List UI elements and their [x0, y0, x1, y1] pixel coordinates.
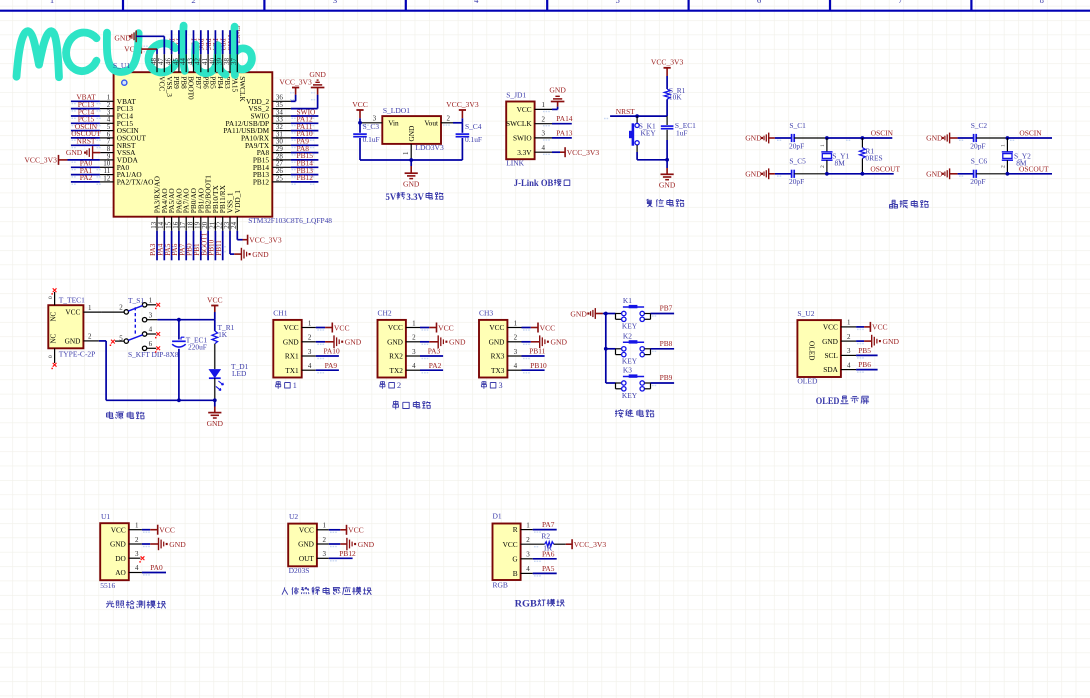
pin 20 net BOOT1 [200, 217, 209, 261]
svg-text:3: 3 [149, 311, 153, 319]
pushbutton K2 KEY [606, 332, 651, 366]
svg-text:8M: 8M [835, 158, 846, 167]
svg-text:VCC_3V3: VCC_3V3 [651, 58, 684, 67]
svg-text:1: 1 [1001, 144, 1007, 147]
section title PIR sensor [282, 587, 372, 595]
svg-text:4: 4 [542, 144, 546, 152]
pin 37 wire top [230, 30, 238, 72]
svg-text:NC: NC [50, 311, 58, 321]
resistor R1 10K [664, 86, 685, 116]
svg-text:6: 6 [149, 340, 153, 348]
svg-text:8: 8 [1040, 0, 1044, 5]
svg-text:20pF: 20pF [789, 177, 804, 186]
wire OSCOUT net [825, 165, 900, 176]
pin 4 AO net PA0 [129, 563, 166, 576]
svg-text:GND: GND [298, 540, 314, 549]
svg-text:PA2/TX/AO: PA2/TX/AO [117, 178, 154, 187]
svg-text:25: 25 [276, 174, 284, 182]
svg-text:SCL: SCL [825, 351, 839, 360]
svg-text:2: 2 [847, 333, 851, 341]
pin 4 B net PA5 [521, 564, 557, 577]
pushbutton K1 KEY [606, 296, 651, 330]
svg-text:K1: K1 [623, 296, 632, 305]
svg-text:VCC: VCC [489, 323, 504, 332]
pin 22 net PB11 [215, 217, 224, 261]
pin 32 net PA11 [272, 122, 318, 134]
svg-text:S_U1: S_U1 [113, 61, 130, 70]
svg-text:S_KFT DIP-8X8: S_KFT DIP-8X8 [128, 350, 179, 359]
svg-text:24: 24 [230, 221, 238, 229]
pin 3 RX1 net PA10 [302, 347, 340, 360]
pin 36 VDD_2 to VCC_3V3 [272, 88, 295, 102]
designator S_U1 [113, 61, 130, 70]
pin 29 net PA8 [272, 144, 318, 156]
pin 4 TX3 net PB10 [507, 361, 547, 374]
svg-text:SWCLK: SWCLK [506, 119, 532, 128]
svg-text:3: 3 [514, 348, 518, 356]
svg-text:G: G [512, 554, 518, 563]
svg-text:2: 2 [88, 333, 92, 341]
pin 4 3.3V to VCC_3V3 [535, 144, 600, 157]
power port VCC_3V3 reset [651, 58, 684, 89]
svg-text:2: 2 [119, 304, 123, 312]
pin 1 VCC U2 [317, 522, 364, 535]
pin 34 net SWIO [272, 107, 318, 119]
svg-text:SWIO: SWIO [513, 134, 532, 143]
pin 3 SWIO net PA13 [535, 129, 573, 141]
svg-text:VCC: VCC [517, 105, 532, 114]
voltage regulator LDO1 body [382, 106, 444, 152]
svg-text:GND: GND [549, 86, 566, 95]
power port VCC power circuit [207, 295, 223, 319]
pin 1 VCC U1 [129, 522, 175, 535]
capacitor C3 0.1uF [353, 121, 379, 160]
svg-text:4: 4 [135, 564, 139, 572]
svg-text:2: 2 [308, 334, 312, 342]
svg-text:GND: GND [169, 540, 186, 549]
svg-text:S_C1: S_C1 [789, 121, 806, 130]
compile dashes below U1 [159, 246, 226, 252]
svg-text:3: 3 [333, 0, 337, 5]
svg-text:VCC_3V3: VCC_3V3 [249, 236, 282, 245]
crystal Y1 8M [820, 138, 849, 174]
svg-text:PA6: PA6 [542, 549, 555, 558]
pin 14 net PA4 [157, 217, 166, 261]
no connect X pole stub [110, 340, 125, 346]
wire OSCOUT net right [1006, 165, 1053, 176]
svg-text:KEY: KEY [622, 321, 638, 330]
svg-text:PA2: PA2 [429, 361, 442, 370]
pin 5 net OSCIN [71, 122, 114, 134]
pin 2 GND CH1 [302, 334, 362, 349]
svg-text:35: 35 [276, 101, 284, 109]
svg-text:GND: GND [110, 540, 126, 549]
svg-text:GND: GND [822, 337, 838, 346]
svg-text:0.1uF: 0.1uF [363, 135, 380, 144]
svg-text:KEY: KEY [641, 128, 657, 137]
svg-text:KEY: KEY [622, 391, 638, 400]
pin 48 VCC [141, 49, 158, 72]
svg-text:CH3: CH3 [479, 309, 493, 318]
svg-text:3: 3 [412, 348, 416, 356]
svg-text:Vin: Vin [388, 119, 399, 128]
sensor U1 body [100, 512, 129, 590]
svg-text:PA5: PA5 [542, 564, 555, 573]
svg-text:GND: GND [883, 337, 900, 346]
pin 6 net OSCOUT [71, 129, 114, 141]
svg-text:GND: GND [926, 169, 943, 178]
svg-text:S_JD1: S_JD1 [506, 91, 526, 100]
connector CH3 body [479, 309, 507, 378]
svg-text:1: 1 [293, 381, 297, 390]
capacitor EC1 1uF [661, 116, 696, 160]
ground GND reset [659, 160, 676, 190]
svg-text:5: 5 [615, 0, 619, 5]
net label NRST wire [604, 107, 667, 119]
label serial 3 [481, 381, 502, 390]
pin 17 net PA7 [178, 217, 187, 261]
svg-text:GND: GND [358, 540, 375, 549]
svg-text:PA9: PA9 [325, 361, 338, 370]
svg-text:GND: GND [387, 337, 403, 346]
svg-text:2: 2 [542, 115, 546, 123]
svg-text:LINK: LINK [506, 158, 524, 167]
svg-text:GND: GND [407, 126, 416, 142]
pin 1 VCC wire to switch [83, 304, 124, 312]
svg-text:3: 3 [308, 348, 312, 356]
svg-text:1K: 1K [218, 330, 228, 339]
connector JD1 J-Link body [506, 91, 535, 168]
LED D1 power indicator [209, 362, 249, 400]
svg-text:RX2: RX2 [389, 352, 403, 361]
svg-text:D1: D1 [493, 511, 502, 520]
svg-text:GND: GND [345, 338, 362, 347]
svg-text:1: 1 [526, 521, 530, 529]
svg-text:VCC: VCC [540, 323, 556, 332]
svg-text:1uF: 1uF [676, 128, 688, 137]
pin 1 VCC CH2 [406, 319, 454, 332]
svg-text:RX1: RX1 [285, 352, 299, 361]
pin 24 VDD_1 to VCC_3V3 [230, 217, 282, 245]
connector TEC1 TYPE-C body [48, 296, 95, 359]
connector CH1 body [273, 309, 301, 378]
svg-text:VCC: VCC [299, 525, 314, 534]
net labels top of U1 [167, 25, 241, 51]
svg-text:1: 1 [402, 151, 410, 155]
ground GND above J-Link pin1 [549, 86, 566, 102]
svg-text:VCC_3V3: VCC_3V3 [24, 156, 57, 165]
svg-text:K3: K3 [623, 366, 632, 375]
svg-text:PA2: PA2 [80, 173, 93, 182]
pin 38 wire top [223, 30, 231, 72]
ground GND crystal1 row2 [745, 168, 775, 179]
svg-text:1: 1 [135, 522, 139, 530]
svg-text:1: 1 [514, 319, 518, 327]
svg-text:37: 37 [230, 58, 238, 66]
wire bottom rail LDO [360, 158, 462, 162]
pin 12 net PA2 [71, 173, 114, 185]
pin 16 net PA6 [171, 217, 180, 261]
svg-text:4: 4 [308, 362, 312, 370]
svg-text:4: 4 [474, 0, 479, 5]
svg-text:VCC: VCC [334, 323, 350, 332]
svg-text:1: 1 [88, 304, 92, 312]
svg-text:GND: GND [659, 181, 676, 190]
svg-text:CH1: CH1 [273, 309, 287, 318]
svg-text:GND: GND [551, 338, 568, 347]
pin 1 VCC CH1 [302, 319, 350, 332]
power port VCC_3V3 above C4 [446, 100, 479, 123]
svg-text:TX1: TX1 [285, 366, 299, 375]
capacitor C1 20pF [775, 121, 827, 151]
svg-text:S_U2: S_U2 [797, 309, 814, 318]
svg-text:3.3V: 3.3V [517, 148, 532, 157]
ground GND crystal1 row1 [745, 133, 775, 144]
svg-text:GND: GND [207, 419, 224, 428]
svg-text:K2: K2 [623, 332, 632, 341]
capacitor C6 20pF [958, 156, 1008, 186]
svg-text:PB8: PB8 [660, 339, 673, 348]
svg-text:5V: 5V [386, 192, 397, 203]
svg-text:0: 0 [48, 355, 54, 358]
svg-text:PB6: PB6 [858, 360, 871, 369]
svg-text:3: 3 [135, 550, 139, 558]
svg-text:GND: GND [252, 250, 269, 259]
svg-text:OSCOUT: OSCOUT [1019, 165, 1049, 174]
pin 9 VDDA VCC_3V3 [24, 152, 113, 165]
svg-text:S_C3: S_C3 [363, 122, 380, 131]
capacitor C2 20pF [958, 121, 1008, 151]
pin 3 RX3 net PB11 [507, 347, 545, 360]
svg-text:GND: GND [114, 34, 131, 43]
svg-text:1: 1 [412, 319, 416, 327]
pin 15 net PA5 [164, 217, 173, 261]
pin 4 SDA net PB6 [841, 360, 878, 373]
svg-text:S_LDO1: S_LDO1 [383, 106, 410, 115]
pushbutton K1 KEY reset [631, 116, 656, 160]
svg-text:220uF: 220uF [188, 342, 207, 351]
svg-text:PB9: PB9 [660, 373, 673, 382]
wire net PB8 [651, 339, 675, 352]
svg-text:3: 3 [323, 550, 327, 558]
svg-text:GND: GND [570, 309, 587, 318]
pin 3 Vin wire [360, 115, 382, 126]
svg-text:10K: 10K [669, 93, 682, 102]
power port VCC top of U1 [124, 45, 148, 54]
svg-text:J-Link OB: J-Link OB [514, 178, 554, 189]
pin 43 wire top [186, 30, 194, 72]
svg-text:PA13: PA13 [556, 129, 572, 138]
pin 46 wire top [165, 30, 173, 72]
svg-text:1: 1 [308, 319, 312, 327]
pin 4 TX1 net PA9 [302, 361, 339, 374]
svg-text:PB10: PB10 [530, 361, 547, 370]
section title light sensor [106, 600, 166, 608]
svg-text:PA3: PA3 [428, 347, 441, 356]
svg-text:OSCIN: OSCIN [1019, 129, 1042, 138]
svg-text:1: 1 [149, 296, 153, 304]
svg-text:SDA: SDA [823, 365, 838, 374]
svg-text:VCC_3V3: VCC_3V3 [574, 540, 607, 549]
capacitor EC1 220uF polarized [172, 320, 207, 401]
svg-text:VCC: VCC [348, 526, 364, 535]
pin 3 G net PA6 [521, 549, 557, 562]
svg-text:1: 1 [847, 319, 851, 327]
svg-text:OLED: OLED [807, 341, 816, 360]
pin 45 wire top [172, 30, 180, 72]
svg-text:OUT: OUT [299, 554, 315, 563]
svg-text:20pF: 20pF [970, 141, 985, 150]
pin stub bottom TEC1 no connect [48, 348, 57, 369]
pin 30 net PA9 [272, 137, 318, 149]
pin 26 net PB13 [272, 166, 318, 178]
svg-text:GND: GND [283, 337, 299, 346]
pin 11 net PA1 [71, 166, 114, 178]
svg-text:DO: DO [115, 554, 126, 563]
svg-text:GND: GND [65, 336, 81, 345]
resistor R1 0RES crystal [860, 138, 883, 174]
wire switch to VCC rail [157, 318, 214, 322]
pin 1 wire to ground [535, 101, 558, 112]
svg-text:2: 2 [191, 0, 195, 5]
svg-text:PA14: PA14 [556, 114, 572, 123]
pin 8 VSSA ground [66, 145, 114, 159]
pin 4 TX2 net PA2 [406, 361, 443, 374]
pin 44 wire top [179, 30, 187, 72]
section title buttons [615, 409, 654, 417]
resistor R1 1K power [212, 320, 235, 369]
svg-text:CH2: CH2 [378, 309, 392, 318]
wire net PB9 [651, 373, 675, 386]
svg-text:3: 3 [499, 381, 503, 390]
svg-text:VCC: VCC [159, 526, 175, 535]
section title OLED display [816, 396, 869, 407]
section title serial [393, 401, 430, 410]
svg-text:OSCIN: OSCIN [871, 129, 894, 138]
svg-text:4: 4 [526, 565, 530, 573]
svg-text:1: 1 [50, 0, 54, 5]
svg-text:LDO3V3: LDO3V3 [415, 143, 444, 152]
crystal Y2 8M [1001, 138, 1032, 174]
svg-text:VDD_1: VDD_1 [233, 190, 242, 213]
wire reset bottom [637, 158, 669, 162]
pin 2 net PC13 [71, 100, 114, 112]
pin 25 net PB12 [272, 173, 318, 185]
label serial 2 [380, 381, 401, 390]
section title J-Link OB [514, 178, 570, 189]
pin 31 net PA10 [272, 129, 318, 141]
svg-text:1: 1 [820, 144, 826, 147]
label serial 1 [276, 381, 297, 390]
svg-text:GND: GND [926, 134, 943, 143]
svg-text:2: 2 [526, 536, 530, 544]
svg-text:VCC: VCC [111, 525, 126, 534]
svg-text:3: 3 [847, 347, 851, 355]
svg-text:GND: GND [66, 148, 83, 157]
svg-text:0.1uF: 0.1uF [465, 135, 482, 144]
svg-text:4: 4 [412, 362, 416, 370]
svg-text:T_S1: T_S1 [128, 296, 144, 305]
ground GND crystal2 row1 [926, 133, 958, 144]
pin 1 VCC OLED [841, 319, 888, 332]
svg-text:5: 5 [119, 334, 123, 342]
wire power bottom rail [106, 398, 217, 402]
svg-text:4: 4 [514, 362, 518, 370]
svg-text:PB11: PB11 [529, 347, 545, 356]
section title RGB module [515, 599, 565, 610]
svg-text:SWCLK: SWCLK [238, 76, 247, 102]
pin 1 R net PA7 [521, 520, 557, 533]
svg-text:9: 9 [107, 152, 111, 160]
ground GND power [207, 400, 224, 428]
svg-text:2: 2 [820, 165, 826, 168]
svg-text:PB7: PB7 [660, 304, 673, 313]
logo MCUclub [17, 26, 252, 77]
svg-text:6: 6 [757, 0, 762, 5]
part number STM32F103C8T6_LQFP48 [248, 216, 332, 225]
pin 41 wire top [201, 30, 209, 72]
capacitor C4 0.1uF [456, 122, 482, 160]
svg-text:R2: R2 [541, 532, 550, 541]
svg-text:D203S: D203S [289, 566, 310, 575]
pin 28 net PB15 [272, 151, 318, 163]
svg-text:VCC: VCC [388, 323, 403, 332]
svg-text:RX3: RX3 [491, 352, 505, 361]
svg-text:VCC_3V3: VCC_3V3 [567, 148, 600, 157]
switch S1 KFT DIP-8X8 [119, 296, 179, 359]
svg-text:12: 12 [103, 174, 111, 182]
MCU U1 body STM32F103C8T6 [114, 72, 273, 217]
svg-text:VCC_3V3: VCC_3V3 [279, 77, 312, 86]
wire GND top left of U1 [114, 30, 164, 42]
svg-text:2: 2 [135, 536, 139, 544]
pin 13 net PA3 [149, 217, 158, 261]
ground GND below LDO [403, 160, 420, 188]
pin 3 RX2 net PA3 [406, 347, 443, 360]
svg-text:LED: LED [232, 369, 247, 378]
pin 40 wire top [208, 30, 216, 72]
svg-text:S_C2: S_C2 [971, 121, 988, 130]
pin 1 GND lead [402, 144, 411, 160]
svg-text:GND: GND [403, 179, 420, 188]
svg-text:VCC: VCC [438, 323, 454, 332]
section title crystal [890, 200, 929, 208]
pin 21 net PB10 [208, 217, 217, 261]
power port VCC above C3 [352, 100, 368, 123]
wire OSCIN net [825, 129, 894, 141]
svg-text:PB12: PB12 [339, 549, 356, 558]
pin 2 GND CH3 [507, 334, 567, 349]
pin 1 VCC CH3 [507, 319, 555, 332]
pin 3 OUT net PB12 [317, 549, 356, 562]
pin 4 net PC15 [71, 115, 114, 127]
svg-text:RGB: RGB [515, 599, 538, 610]
svg-text:STM32F103C8T6_LQFP48: STM32F103C8T6_LQFP48 [248, 216, 332, 225]
pin 39 wire top [216, 30, 224, 72]
wire net PB7 [651, 304, 675, 317]
pin 2 GND CH2 [406, 334, 466, 349]
pin 42 wire top [194, 30, 202, 72]
svg-text:5516: 5516 [100, 581, 115, 590]
svg-text:B: B [513, 569, 518, 578]
svg-text:4: 4 [847, 361, 851, 369]
ground GND crystal2 row2 [926, 168, 958, 179]
svg-text:GND: GND [309, 70, 326, 79]
pin stub top TEC1 no connect [48, 288, 57, 305]
pin 19 net PB1 [193, 217, 202, 261]
svg-text:TYPE-C-2P: TYPE-C-2P [59, 350, 96, 359]
svg-text:3.3V: 3.3V [406, 192, 424, 203]
